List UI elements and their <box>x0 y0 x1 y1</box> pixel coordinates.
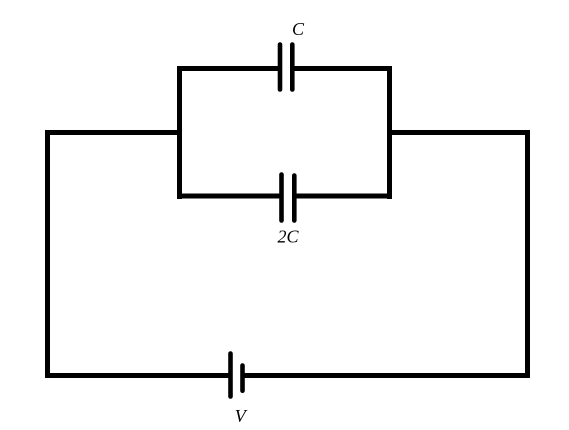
svg-text:V: V <box>235 406 248 426</box>
wire: inner loop top horizontal, right segment from capacitor C <box>292 66 393 71</box>
wire: inner loop bottom horizontal, right segment from capacitor 2C <box>294 194 393 199</box>
wire: top-right horizontal from inner loop to outer loop <box>387 130 530 135</box>
capacitor 2C (bottom of inner loop): right plate <box>292 176 297 221</box>
svg-text:2C: 2C <box>278 227 300 247</box>
wire: inner loop bottom horizontal, left segment to capacitor 2C <box>177 194 281 199</box>
wire: inner loop top horizontal, left segment to capacitor C <box>177 66 279 71</box>
capacitor C (top): left plate <box>278 45 283 90</box>
wire: inner loop left vertical <box>177 66 182 199</box>
wire: bottom horizontal left of battery <box>45 373 231 378</box>
capacitor C (top): right plate <box>290 45 295 90</box>
wire: top-left horizontal from outer loop to inner loop <box>45 130 182 135</box>
wire: outer loop left vertical <box>45 130 50 378</box>
battery V: long plate (positive terminal) <box>228 354 233 397</box>
svg-text:C: C <box>292 19 305 39</box>
wire: outer loop right vertical <box>525 130 530 378</box>
wire: inner loop right vertical <box>387 66 392 199</box>
capacitor 2C (bottom of inner loop): left plate <box>279 175 284 221</box>
battery V: short plate (negative terminal) <box>240 366 245 391</box>
wire: bottom horizontal right of battery <box>242 373 530 378</box>
